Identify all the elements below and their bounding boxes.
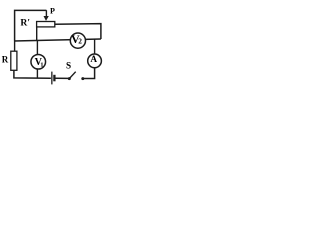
wire V1 top: [36, 41, 38, 55]
svg-text:2: 2: [78, 37, 82, 46]
battery long plate: [51, 72, 53, 85]
svg-text:1: 1: [40, 62, 43, 69]
wire V1 bottom: [36, 69, 38, 78]
switch right contact: [81, 77, 84, 80]
wire mid rail (node between R, V1, rheostat left, V2, ammeter): [14, 39, 101, 41]
voltmeter V1: [31, 54, 46, 69]
wire switch to bottom-right corner: [84, 68, 95, 79]
battery short plate: [53, 75, 55, 82]
wire rheostat left terminal down to rail junction: [36, 27, 38, 41]
svg-text:R: R: [2, 54, 9, 64]
wire battery to switch: [56, 77, 69, 79]
switch lever: [70, 72, 76, 79]
voltmeter V2: [70, 33, 85, 48]
wire rail down to R top: [14, 41, 16, 52]
wire wiper drop: [45, 10, 47, 16]
svg-text:R′: R′: [20, 18, 30, 29]
rheostat wiper arrowhead: [44, 16, 49, 21]
wire R bottom to corner and bottom rail to battery: [14, 70, 51, 78]
svg-text:A: A: [90, 54, 97, 64]
wire rheostat right terminal to top-right corner down to rail: [55, 24, 101, 39]
wire left vertical: rail up to top-left corner, top wire to wiper: [15, 10, 47, 41]
wire ammeter top to rail junction: [94, 39, 96, 54]
svg-text:S: S: [66, 61, 71, 71]
resistor R box: [11, 51, 17, 70]
switch left contact: [68, 77, 71, 80]
ammeter A: [88, 54, 102, 68]
rheostat R' box: [37, 22, 55, 27]
svg-text:P: P: [50, 6, 55, 15]
